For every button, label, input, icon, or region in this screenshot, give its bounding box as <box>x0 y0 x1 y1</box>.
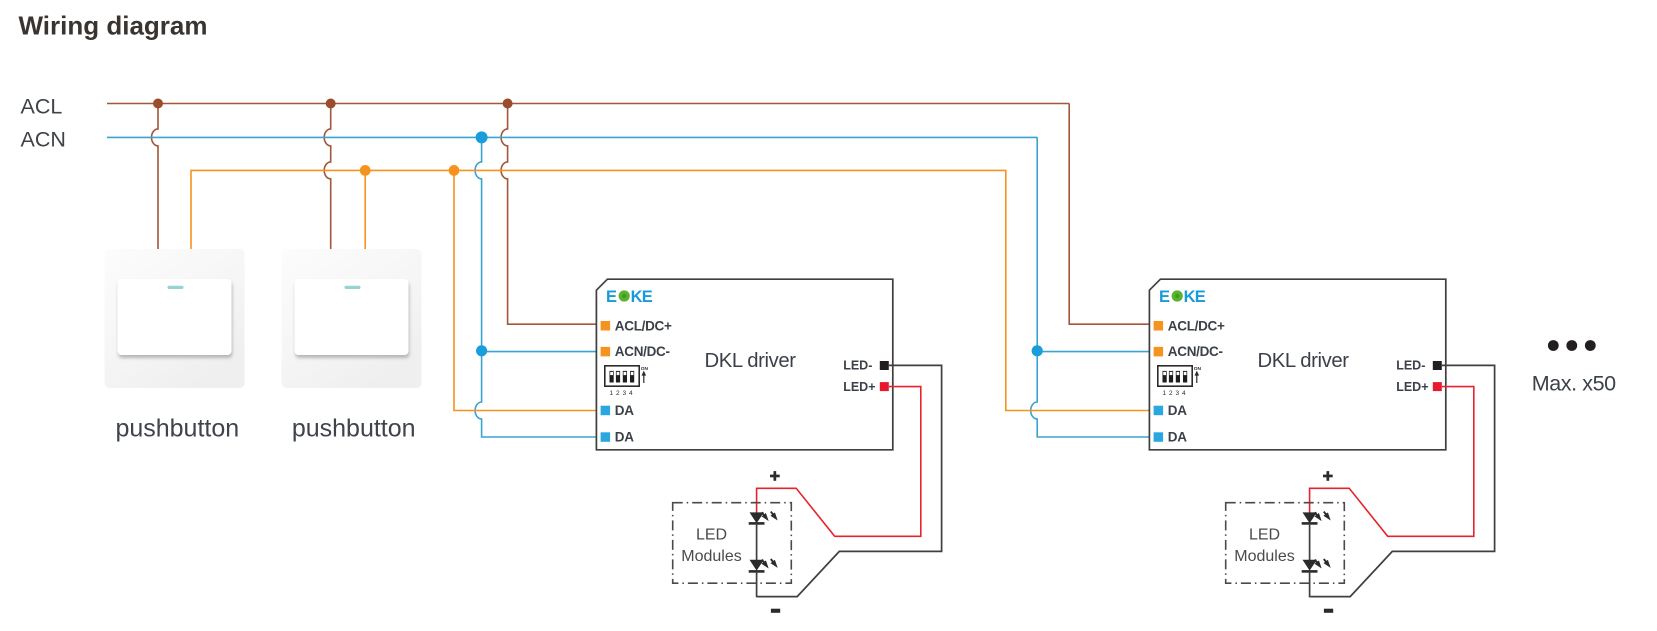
wire blue branch into driver 1 ACN/DC- <box>482 351 601 353</box>
junction ACL / driver 1 <box>503 99 513 109</box>
pushbutton S1 <box>105 249 245 388</box>
svg-text:pushbutton: pushbutton <box>115 414 239 442</box>
wire ACN bus (blue) <box>107 136 1037 138</box>
wire orange drop to driver 1 DA upper <box>454 170 601 410</box>
wire ACL bus (brown) <box>107 103 1069 105</box>
wire blue drop to driver 2 <box>1036 137 1038 350</box>
svg-text:pushbutton: pushbutton <box>292 414 416 442</box>
wire orange drop to pushbutton 2 <box>364 170 366 249</box>
DKL driver U1 with LED module assembly <box>596 279 941 613</box>
junction ACL / pushbutton 1 <box>153 99 163 109</box>
wire brown drop to driver 1 ACL/DC+ <box>501 104 600 325</box>
wire blue down to driver 1 DA lower (hop over orange) <box>475 351 600 437</box>
ellipsis dot 1 <box>1548 340 1559 351</box>
wire blue drop to driver 1 (hop over DA bus) <box>475 137 482 350</box>
junction DA bus / pushbutton 2 <box>360 165 371 176</box>
wire brown drop to pushbutton 1 (hop over ACN) <box>152 104 159 250</box>
wire brown drop to driver 2 ACL/DC+ <box>1069 104 1153 325</box>
svg-text:Wiring diagram: Wiring diagram <box>19 11 208 41</box>
ellipsis dot 3 <box>1585 340 1596 351</box>
junction ACN branch at driver 2 ACN/DC- <box>1032 345 1043 356</box>
DKL driver U2 with LED module assembly <box>1149 279 1494 613</box>
junction ACN / driver 1 <box>476 131 488 143</box>
junction DA bus / driver 1 <box>449 165 460 176</box>
svg-text:Max. x50: Max. x50 <box>1532 372 1616 396</box>
pushbutton S2 <box>282 249 422 388</box>
wire blue branch into driver 2 ACN/DC- <box>1037 351 1153 353</box>
wire DA bus (orange) with drops to pushbutton 1 and driver 2 <box>191 170 1154 410</box>
junction ACN branch at driver 1 ACN/DC- <box>476 345 487 356</box>
wire blue down to driver 2 DA lower (hop over orange) <box>1031 351 1154 437</box>
ellipsis dot 2 <box>1566 340 1577 351</box>
svg-text:ACN: ACN <box>21 128 66 152</box>
wire brown drop to pushbutton 2 (hops over ACN and DA bus) <box>324 104 331 250</box>
svg-text:ACL: ACL <box>21 94 63 118</box>
junction ACL / pushbutton 2 <box>326 99 336 109</box>
